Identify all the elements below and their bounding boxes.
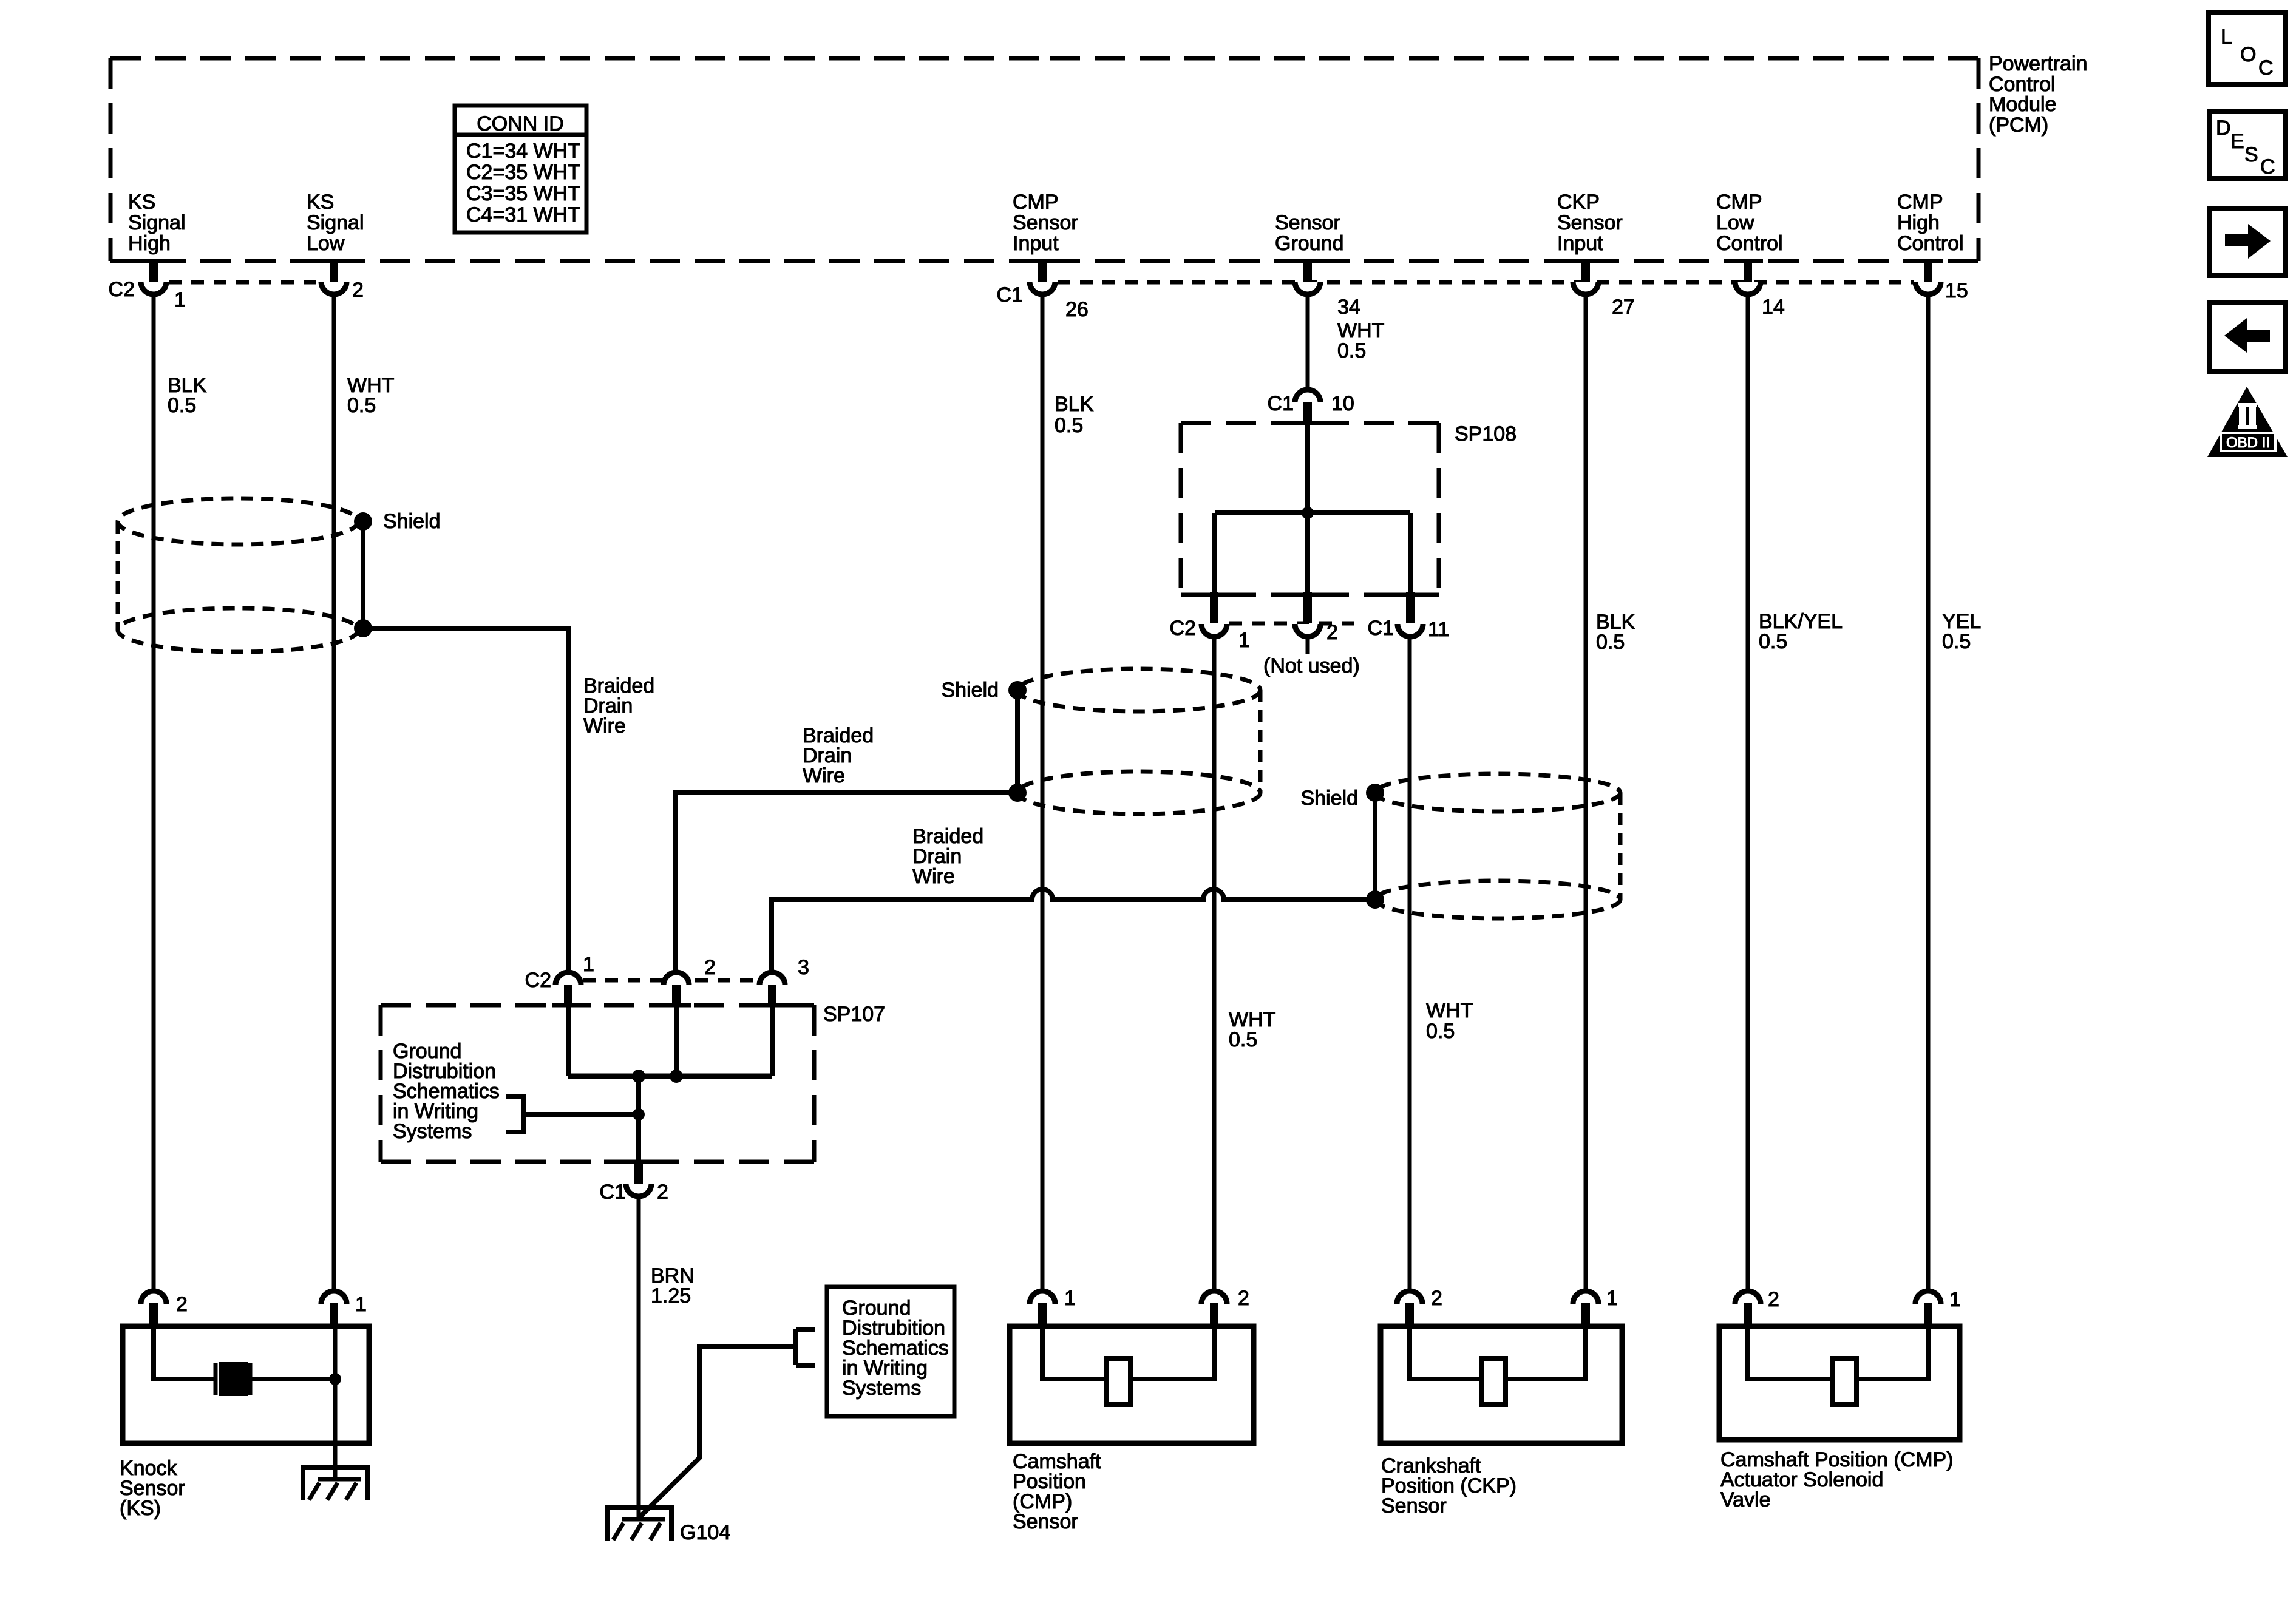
KS shield cylinder top ellipse xyxy=(118,498,358,544)
pin SP108 C2-1 xyxy=(1170,592,1250,652)
svg-text:SP107: SP107 xyxy=(823,1003,885,1026)
pin SP107 2 xyxy=(664,956,716,1007)
pin C2-2 (KS Signal Low) xyxy=(321,259,364,302)
svg-text:C: C xyxy=(2258,56,2274,80)
braided drain wire KS (shield to SP107 pin C2-1) xyxy=(363,628,568,972)
svg-text:OBD II: OBD II xyxy=(2226,435,2270,451)
knock sensor internal wire right xyxy=(248,1377,335,1381)
junction node SP107 bus pin2 xyxy=(670,1070,683,1083)
svg-text:Low: Low xyxy=(307,232,345,255)
label BLK 0.5 (CKP input wire) xyxy=(1596,611,1635,654)
label Powertrain Control Module (PCM) xyxy=(1989,52,2088,137)
pin SP108 C1-11 xyxy=(1368,592,1450,641)
pin KS 1 xyxy=(321,1291,367,1328)
CMP shield cylinder bottom ellipse xyxy=(1017,771,1260,814)
svg-text:2: 2 xyxy=(176,1293,188,1316)
knock sensor piezo element xyxy=(216,1362,250,1396)
svg-text:(KS): (KS) xyxy=(120,1497,161,1520)
svg-text:C2: C2 xyxy=(1170,617,1196,640)
CKP shield cylinder bottom ellipse xyxy=(1375,881,1620,918)
KS shield node bottom xyxy=(354,619,372,637)
svg-text:2: 2 xyxy=(1238,1287,1249,1310)
svg-text:34: 34 xyxy=(1337,296,1360,319)
label Braided Drain Wire (KS) xyxy=(583,674,654,737)
CKP shield cylinder right side xyxy=(1618,793,1623,900)
label Braided Drain Wire (CKP) xyxy=(912,825,983,888)
CMP shield cylinder top ellipse xyxy=(1017,669,1260,711)
junction node SP107 bus left xyxy=(632,1070,645,1083)
label BLK 0.5 (CMP input wire) xyxy=(1055,393,1094,437)
PCM dashed box (Powertrain Control Module) xyxy=(110,58,1978,261)
svg-text:0.5: 0.5 xyxy=(1942,630,1971,653)
label CKP Sensor Input xyxy=(1557,191,1623,255)
bracket to ground distribution reference (SP107) xyxy=(506,1097,526,1132)
CMP shield link wire xyxy=(1015,690,1020,793)
legend icon left arrow box xyxy=(2210,303,2286,371)
label Sensor Ground xyxy=(1275,211,1343,255)
svg-text:Sensor: Sensor xyxy=(1013,211,1078,234)
svg-text:Wire: Wire xyxy=(583,714,626,737)
svg-text:0.5: 0.5 xyxy=(1055,414,1083,437)
label WHT 0.5 (KS low wire) xyxy=(347,374,394,417)
camshaft position sensor box xyxy=(1010,1326,1254,1443)
svg-text:Sensor: Sensor xyxy=(1013,1510,1078,1533)
svg-text:Powertrain: Powertrain xyxy=(1989,52,2088,75)
svg-text:Input: Input xyxy=(1557,232,1603,255)
CMP shield node bottom xyxy=(1008,784,1027,802)
svg-text:1: 1 xyxy=(1949,1288,1961,1311)
CKP shield link wire xyxy=(1373,793,1377,900)
svg-text:Input: Input xyxy=(1013,232,1059,255)
wire CMP Low Control BLK/YEL 0.5 (pin C1-14 to actuator pin 2) xyxy=(1746,294,1750,1292)
svg-text:Low: Low xyxy=(1716,211,1754,234)
label Camshaft Position (CMP) Actuator Solenoid Vavle xyxy=(1720,1448,1954,1511)
svg-text:Control: Control xyxy=(1716,232,1783,255)
svg-text:2: 2 xyxy=(352,279,364,302)
ground G104 symbol xyxy=(605,1507,674,1541)
svg-text:CKP: CKP xyxy=(1557,191,1600,214)
wire CMP Sensor Input BLK 0.5 (pin C1-26 to CMP sensor pin 1) xyxy=(1041,294,1045,1292)
stub wire below SP108 pin 2 xyxy=(1306,637,1310,654)
pin C1-14 (CMP Low Control) xyxy=(1735,259,1785,319)
label WHT 0.5 (CKP sensor pin2 wire) xyxy=(1426,999,1473,1043)
svg-text:C1: C1 xyxy=(1368,617,1394,640)
svg-text:1: 1 xyxy=(355,1293,367,1316)
legend icon right arrow box xyxy=(2209,208,2285,276)
pin C2-1 (KS Signal High) xyxy=(109,259,186,311)
SP108 internal bus xyxy=(1215,510,1410,515)
SP108 branch wire left xyxy=(1212,513,1217,594)
label Camshaft Position (CMP) Sensor xyxy=(1013,1450,1101,1533)
svg-text:High: High xyxy=(1897,211,1940,234)
ground chassis symbol (knock sensor) xyxy=(301,1467,370,1500)
connector dotted line SP108 pins xyxy=(1229,622,1364,626)
crankshaft position sensor box xyxy=(1381,1326,1622,1443)
wire KS Signal High BLK 0.5 (pin C2-1 to KS pin 2) xyxy=(152,294,156,1292)
connector dotted line SP107 pins xyxy=(583,978,759,983)
CKP sensor element xyxy=(1482,1358,1506,1405)
wire bracket to SP107 stub xyxy=(523,1112,639,1117)
svg-text:CMP: CMP xyxy=(1897,191,1943,214)
svg-text:Shield: Shield xyxy=(1300,787,1358,810)
wire SP108 C1-11 to CKP sensor pin 2 WHT 0.5 xyxy=(1408,637,1412,1292)
CKP sensor internal wire right xyxy=(1506,1328,1586,1379)
svg-text:2: 2 xyxy=(1768,1288,1779,1311)
wire CMP High Control YEL 0.5 (pin C1-15 to actuator pin 1) xyxy=(1926,294,1931,1292)
svg-text:1: 1 xyxy=(1238,629,1250,652)
svg-text:Wire: Wire xyxy=(803,764,845,787)
CMP sensor internal wire left xyxy=(1042,1328,1107,1379)
CMP shield node top xyxy=(1008,681,1027,699)
pin C1-15 (CMP High Control) xyxy=(1915,259,1968,302)
label Knock Sensor (KS) xyxy=(120,1457,185,1520)
pin CMP actuator 2 xyxy=(1735,1288,1779,1328)
splice SP108 dashed box xyxy=(1181,423,1439,595)
svg-text:CMP: CMP xyxy=(1716,191,1762,214)
svg-text:C1=34 WHT: C1=34 WHT xyxy=(466,140,580,163)
svg-text:CMP: CMP xyxy=(1013,191,1059,214)
svg-text:0.5: 0.5 xyxy=(1426,1020,1455,1043)
svg-text:14: 14 xyxy=(1762,296,1785,319)
pin SP107 C2-1 xyxy=(525,953,594,1007)
wire Sensor Ground WHT 0.5 (pin C1-34 to connector C1-10) xyxy=(1306,294,1310,390)
svg-text:WHT: WHT xyxy=(1426,999,1473,1022)
svg-text:O: O xyxy=(2240,43,2256,66)
wire CKP Sensor Input BLK 0.5 (pin C1-27 to CKP sensor pin 1) xyxy=(1584,294,1588,1292)
svg-text:Shield: Shield xyxy=(383,510,441,533)
SP107 internal wire from pin 3 xyxy=(770,1007,775,1076)
svg-text:Vavle: Vavle xyxy=(1720,1488,1771,1511)
pin CKP sensor 1 xyxy=(1573,1287,1618,1328)
svg-text:11: 11 xyxy=(1428,618,1449,641)
svg-text:C2: C2 xyxy=(109,278,135,301)
svg-text:0.5: 0.5 xyxy=(1596,631,1625,654)
svg-text:3: 3 xyxy=(798,956,809,979)
svg-text:Systems: Systems xyxy=(842,1377,921,1400)
svg-text:2: 2 xyxy=(1326,621,1338,644)
svg-text:Control: Control xyxy=(1897,232,1964,255)
svg-text:KS: KS xyxy=(307,191,334,214)
pin KS 2 xyxy=(141,1291,188,1328)
SP107 internal bus xyxy=(568,1074,772,1079)
svg-text:0.5: 0.5 xyxy=(1759,630,1787,653)
braided drain wire CKP (SP107 pin 3 to shield, hops over two wires) xyxy=(772,889,1375,972)
pin C1-26 (CMP Sensor Input) xyxy=(997,259,1089,321)
legend icon LOC box xyxy=(2209,12,2285,84)
wire ground distribution box to G104 xyxy=(639,1347,796,1517)
braided drain wire CMP (shield to SP107 pin 2) xyxy=(676,793,1017,972)
border dashes centred on pin bars xyxy=(138,259,1943,1164)
KS shield node top xyxy=(354,512,372,531)
SP107 stub down to C1-2 xyxy=(636,1076,641,1162)
svg-text:C: C xyxy=(2260,155,2275,178)
svg-text:0.5: 0.5 xyxy=(168,394,196,417)
CKP shield cylinder top ellipse xyxy=(1375,774,1620,812)
label BLK 0.5 (KS high wire) xyxy=(168,374,207,417)
svg-text:D: D xyxy=(2216,117,2231,140)
actuator internal wire right xyxy=(1856,1328,1928,1379)
pin C1-2 (below SP107) xyxy=(600,1161,668,1204)
CMP sensor internal wire right xyxy=(1130,1328,1214,1379)
label YEL 0.5 xyxy=(1942,610,1981,653)
pin CMP actuator 1 xyxy=(1915,1288,1961,1328)
pin SP107 3 xyxy=(759,956,809,1007)
connector dotted line C2 pins 1-2 xyxy=(169,280,319,285)
svg-text:Wire: Wire xyxy=(912,865,955,888)
pin CMP sensor 1 xyxy=(1030,1287,1076,1328)
svg-text:C2: C2 xyxy=(525,969,551,992)
wire BRN 1.25 (C1-2 to G104) xyxy=(637,1196,641,1517)
svg-text:1: 1 xyxy=(174,288,186,311)
label BLK/YEL 0.5 xyxy=(1759,610,1843,653)
label CMP Sensor Input xyxy=(1013,191,1078,255)
pin CMP sensor 2 xyxy=(1201,1287,1249,1328)
actuator solenoid element xyxy=(1833,1358,1856,1405)
svg-text:S: S xyxy=(2244,143,2258,166)
actuator internal wire left xyxy=(1748,1328,1833,1379)
connector dotted line C1 pins 26-15 xyxy=(1058,280,1914,285)
svg-text:2: 2 xyxy=(1431,1287,1442,1310)
svg-text:Signal: Signal xyxy=(128,211,186,234)
KS shield cylinder bottom ellipse xyxy=(118,608,358,652)
svg-text:C4=31 WHT: C4=31 WHT xyxy=(466,203,580,226)
svg-text:(PCM): (PCM) xyxy=(1989,114,2048,137)
svg-text:C3=35 WHT: C3=35 WHT xyxy=(466,182,580,205)
svg-text:2: 2 xyxy=(704,956,716,979)
svg-text:2: 2 xyxy=(657,1181,668,1204)
SP108 branch wire right xyxy=(1408,513,1413,594)
svg-text:26: 26 xyxy=(1065,298,1089,321)
junction node SP108 bus center xyxy=(1302,507,1314,519)
svg-text:Systems: Systems xyxy=(393,1120,472,1143)
CKP sensor internal wire left xyxy=(1410,1328,1482,1379)
pin CKP sensor 2 xyxy=(1397,1287,1442,1328)
svg-text:C2=35 WHT: C2=35 WHT xyxy=(466,161,580,184)
svg-text:Sensor: Sensor xyxy=(1557,211,1623,234)
svg-text:CONN ID: CONN ID xyxy=(477,112,564,135)
SP108 branch wire middle xyxy=(1305,513,1310,594)
svg-text:Module: Module xyxy=(1989,93,2057,116)
svg-text:C1: C1 xyxy=(997,283,1023,307)
svg-text:Sensor: Sensor xyxy=(1275,211,1340,234)
svg-text:C1: C1 xyxy=(1268,392,1294,415)
KS shield link wire xyxy=(361,521,365,628)
label KS Signal High xyxy=(128,191,186,255)
svg-text:BLK: BLK xyxy=(1055,393,1094,416)
KS shield cylinder left side xyxy=(116,521,120,630)
splice SP107 dashed box xyxy=(381,1005,814,1162)
label WHT 0.5 (CMP sensor pin2 wire) xyxy=(1229,1008,1275,1051)
ground distribution reference box (right) xyxy=(827,1287,954,1416)
legend icon DESC box xyxy=(2209,111,2285,178)
bracket to ground distribution box (right) xyxy=(796,1329,815,1365)
knock sensor internal wire left xyxy=(154,1328,214,1379)
label WHT 0.5 (sensor ground wire) xyxy=(1337,319,1384,362)
CKP shield node bottom xyxy=(1366,890,1384,909)
SP107 internal wire from pin 1 xyxy=(566,1007,571,1076)
knock sensor internal ground wire xyxy=(333,1328,338,1481)
svg-text:E: E xyxy=(2230,130,2244,153)
svg-text:KS: KS xyxy=(128,191,155,214)
svg-text:0.5: 0.5 xyxy=(347,394,376,417)
svg-text:1.25: 1.25 xyxy=(651,1284,691,1307)
wire KS Signal Low WHT 0.5 (pin C2-2 to KS pin 1) xyxy=(332,294,336,1292)
svg-text:L: L xyxy=(2221,25,2232,49)
svg-text:High: High xyxy=(128,232,171,255)
legend icon OBD II triangle xyxy=(2207,387,2288,457)
CMP sensor element xyxy=(1107,1358,1130,1405)
svg-text:1: 1 xyxy=(1064,1287,1076,1310)
svg-text:Sensor: Sensor xyxy=(1381,1494,1447,1517)
svg-text:Ground: Ground xyxy=(1275,232,1343,255)
junction node knock sensor xyxy=(329,1373,341,1385)
svg-text:27: 27 xyxy=(1612,296,1635,319)
label BRN 1.25 xyxy=(651,1264,695,1307)
svg-text:Signal: Signal xyxy=(307,211,364,234)
knock sensor box xyxy=(123,1326,369,1443)
label Crankshaft Position (CKP) Sensor xyxy=(1381,1454,1517,1517)
svg-text:0.5: 0.5 xyxy=(1337,339,1366,362)
svg-text:Shield: Shield xyxy=(941,679,999,702)
label CMP Low Control xyxy=(1716,191,1783,255)
svg-text:SP108: SP108 xyxy=(1455,422,1517,446)
svg-text:0.5: 0.5 xyxy=(1229,1028,1257,1051)
wire SP108 C2-1 to CMP sensor pin 2 WHT 0.5 xyxy=(1212,637,1217,1292)
svg-text:G104: G104 xyxy=(680,1521,730,1544)
label KS Signal Low xyxy=(307,191,364,255)
svg-text:(Not used): (Not used) xyxy=(1263,654,1360,677)
pin SP108 2 (not used) xyxy=(1295,592,1338,644)
camshaft actuator solenoid box xyxy=(1719,1326,1960,1440)
label Ground Distrubition Schematics in Writing Systems (SP107) xyxy=(393,1040,500,1143)
CKP shield node top xyxy=(1366,784,1384,802)
CONN ID table box xyxy=(455,106,586,232)
pin C1-27 (CKP Sensor Input) xyxy=(1573,259,1635,319)
wire C1-10 into SP108 xyxy=(1305,425,1310,513)
label CMP High Control xyxy=(1897,191,1964,255)
svg-text:10: 10 xyxy=(1331,392,1354,415)
junction node SP107 stub xyxy=(633,1108,645,1120)
CMP shield cylinder right side xyxy=(1258,690,1263,793)
svg-text:15: 15 xyxy=(1945,279,1968,302)
svg-text:1: 1 xyxy=(583,953,594,976)
label Braided Drain Wire (CMP) xyxy=(803,724,874,787)
inline connector C1-10 xyxy=(1268,390,1354,425)
pin C1-34 (Sensor Ground) xyxy=(1295,259,1360,319)
svg-text:C1: C1 xyxy=(600,1181,626,1204)
SP107 internal wire from pin 2 xyxy=(674,1007,679,1076)
svg-text:1: 1 xyxy=(1606,1287,1618,1310)
